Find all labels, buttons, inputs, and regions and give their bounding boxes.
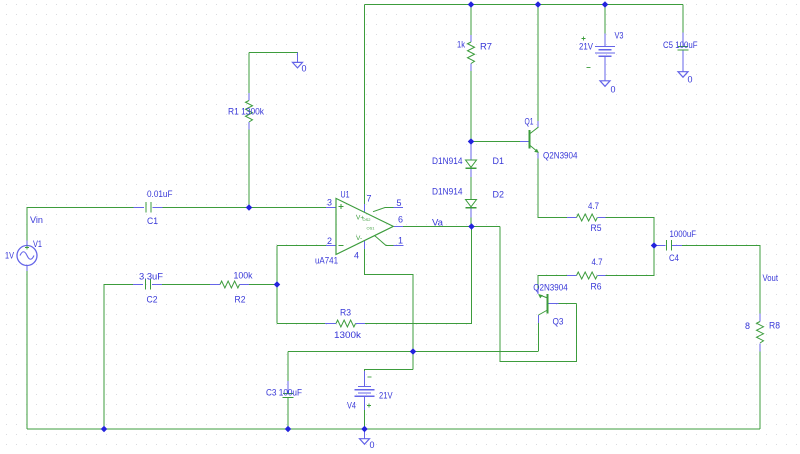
wire R3 right to Va	[365, 227, 472, 324]
wire Vin corner	[27, 208, 134, 241]
svg-text:0: 0	[688, 75, 693, 85]
capacitor C3 (100uF)	[283, 394, 294, 398]
junction node C1-R1-U1 input	[246, 204, 253, 211]
svg-text:OS2: OS2	[363, 217, 372, 222]
capacitor C2 (3.3uF)	[146, 279, 151, 290]
svg-text:R7: R7	[480, 42, 492, 52]
junction node top rail / V3	[602, 1, 609, 8]
pin stub op-amp pin 5	[394, 207, 404, 209]
pin stub V4 ground stem	[364, 429, 366, 439]
pin stub R6 right	[598, 275, 606, 277]
junction node inverting input	[274, 281, 281, 288]
wire V1 bottom	[26, 271, 28, 429]
svg-text:100k: 100k	[234, 271, 253, 281]
pin stub V1 top	[26, 241, 28, 246]
wire V3 top	[604, 5, 606, 34]
wire V4 top jog	[365, 370, 414, 372]
wire R1 bottom to input node	[248, 130, 250, 208]
pin stub R3 right	[356, 323, 366, 325]
pin stub R7 top	[470, 35, 472, 42]
wire V4 bottom	[364, 410, 366, 429]
junction node -V rail / pin4	[410, 348, 417, 355]
svg-text:4: 4	[354, 251, 359, 261]
wire C3 top	[287, 352, 289, 382]
svg-text:0: 0	[302, 64, 307, 74]
svg-text:0.01uF: 0.01uF	[147, 189, 173, 199]
pin stub R1 top	[248, 93, 250, 101]
pin stub Q3 base	[549, 303, 559, 305]
svg-text:D1: D1	[493, 156, 505, 166]
pin stub Q1 base	[520, 141, 529, 143]
wire R1 ground link	[249, 52, 298, 54]
svg-text:5: 5	[397, 198, 402, 208]
svg-text:R3: R3	[340, 308, 351, 318]
svg-text:1: 1	[398, 236, 403, 246]
svg-text:R2: R2	[235, 295, 246, 305]
junction node top rail / R7	[468, 1, 475, 8]
pin stub op-amp pin 7	[364, 204, 366, 212]
svg-text:R1 1300k: R1 1300k	[228, 107, 264, 117]
pin stub C2 left	[133, 284, 143, 286]
wire -V rail	[288, 351, 538, 353]
junction node Va	[468, 223, 475, 230]
V3 minus mark	[587, 67, 591, 69]
svg-text:R6: R6	[591, 282, 602, 292]
pin stub V4 bottom	[364, 397, 366, 410]
pin stub Q1 emitter	[537, 153, 539, 159]
pin stub R7 bottom	[470, 64, 472, 72]
svg-text:8: 8	[745, 321, 750, 331]
svg-text:Va: Va	[432, 218, 443, 228]
svg-text:0: 0	[370, 440, 375, 449]
svg-text:Q2N3904: Q2N3904	[533, 283, 568, 293]
wire Q1 collector up	[537, 5, 539, 122]
pin stub C4 right	[672, 245, 682, 247]
wire C5 top	[682, 5, 684, 33]
resistor R8 (8)	[757, 322, 764, 344]
resistor R6 (4.7)	[577, 272, 598, 279]
pin stub C2 right	[152, 284, 162, 286]
wire Q3 collector down to -V rail	[538, 323, 540, 352]
pin stub V4 top	[364, 371, 366, 386]
junction node C4 / R5 / R6	[651, 242, 658, 249]
pin stub V1 bottom	[26, 266, 28, 272]
pin stub C5 bottom	[682, 51, 684, 72]
svg-text:Q2N3904: Q2N3904	[543, 151, 578, 161]
pin stub C5 top	[682, 33, 684, 47]
junction node top rail / Q1 collector	[535, 1, 542, 8]
svg-text:Q3: Q3	[553, 317, 564, 327]
pin stub R2 right	[240, 284, 250, 286]
pin stub D1 cathode	[470, 169, 472, 177]
wire C4 left	[654, 245, 656, 247]
ground below V3	[600, 81, 610, 87]
svg-text:21V: 21V	[579, 42, 593, 52]
svg-text:C1: C1	[147, 216, 158, 226]
pin stub R8 bottom	[759, 344, 761, 352]
wire C4 to Vout	[682, 246, 760, 314]
junction node ground rail / C2	[101, 426, 108, 433]
diode D1 (D1N914)	[466, 160, 477, 168]
svg-text:R8: R8	[769, 321, 780, 331]
svg-text:C3 100uF: C3 100uF	[266, 388, 302, 398]
pin stub C1 right	[153, 207, 163, 209]
svg-text:1000uF: 1000uF	[670, 229, 697, 239]
wire Q1 emitter down to R5	[538, 159, 567, 218]
svg-text:21V: 21V	[379, 391, 393, 401]
ground below V4	[360, 439, 370, 445]
wire R7 top	[470, 5, 472, 36]
diode D2 (D1N914)	[466, 200, 477, 208]
pin stub C4 left	[656, 245, 666, 247]
svg-text:1300k: 1300k	[334, 330, 362, 340]
wire C1 to op-amp pin 3	[163, 207, 327, 209]
svg-text:6: 6	[398, 215, 403, 225]
svg-text:D1N914: D1N914	[432, 156, 463, 166]
transistor Q3 (Q2N3904 NPN, mirrored)	[538, 294, 547, 315]
pin stub Q1 collector	[537, 121, 539, 127]
pin stub R2 left	[210, 284, 220, 286]
op-amp U1 (uA741) body	[336, 198, 394, 254]
pin stub op-amp pin 3	[326, 207, 336, 209]
pin stub C1 left	[134, 207, 145, 209]
wire op-amp pin 4 jog	[365, 249, 414, 370]
wire D2 to Va node	[470, 218, 472, 227]
pin stub C3 top	[287, 381, 289, 393]
capacitor C4 (1000uF)	[667, 240, 672, 251]
svg-text:3.3uF: 3.3uF	[139, 272, 164, 282]
svg-text:D1N914: D1N914	[432, 187, 463, 197]
svg-text:Vin: Vin	[30, 215, 43, 225]
source V4 (21V battery)	[355, 387, 375, 397]
svg-text:C4: C4	[669, 253, 679, 263]
pin stub V3 bottom	[604, 57, 606, 81]
wire C2 to R2	[162, 284, 210, 286]
svg-text:3: 3	[327, 198, 332, 208]
wire to op-amp pin 2	[277, 245, 326, 247]
wire inverting node vertical	[276, 246, 278, 324]
wire Va output	[403, 226, 500, 228]
svg-text:V1: V1	[33, 239, 42, 249]
junction node Q1 base / R7 / D1	[468, 138, 475, 145]
wire Q3 base	[559, 303, 577, 305]
source V1 (1V sine)	[17, 246, 37, 266]
svg-text:4.7: 4.7	[588, 201, 599, 211]
svg-text:7: 7	[367, 194, 372, 204]
wire Q1 base	[471, 141, 520, 143]
V3 plus mark	[582, 37, 586, 41]
pin stub op-amp pin 6	[394, 226, 403, 228]
resistor R2 (100k)	[220, 281, 240, 288]
svg-text:R5: R5	[591, 223, 602, 233]
resistor R7 (1k)	[468, 42, 475, 64]
svg-text:Q1: Q1	[525, 117, 534, 127]
resistor R5 (4.7)	[577, 214, 598, 221]
wire R7 bottom to Q1 base node	[470, 71, 472, 142]
svg-text:OS1: OS1	[367, 226, 376, 231]
V4 plus mark	[367, 404, 371, 408]
junction node ground rail / C3	[285, 426, 292, 433]
svg-text:Vout: Vout	[763, 273, 779, 283]
svg-text:V4: V4	[347, 401, 356, 411]
wire bottom ground rail	[27, 428, 760, 430]
wire D1-D2 link	[470, 177, 472, 200]
pin stub R8 top	[759, 314, 761, 322]
svg-text:2: 2	[327, 236, 332, 246]
svg-text:1V: 1V	[5, 251, 14, 261]
pin stub op-amp pin 1	[394, 245, 404, 247]
wire R5 right	[606, 218, 655, 246]
resistor R1 (1300k)	[246, 101, 253, 123]
wire C2 left drop	[104, 285, 133, 430]
svg-text:uA741: uA741	[315, 256, 338, 266]
wire V+ feed down to op-amp pin 7	[364, 5, 366, 205]
ground near R1 stem	[297, 53, 299, 63]
transistor Q1 (Q2N3904 NPN)	[530, 127, 539, 153]
pin stub D1 anode	[470, 142, 472, 160]
pin stub op-amp pin 4	[364, 241, 366, 249]
svg-text:V-: V-	[356, 235, 362, 242]
svg-text:U1: U1	[341, 190, 350, 200]
svg-text:D2: D2	[493, 190, 505, 200]
V4 minus mark	[368, 376, 372, 378]
capacitor C1 (0.01uF)	[146, 202, 151, 213]
pin stub R5 right	[598, 217, 606, 219]
svg-text:V3: V3	[615, 31, 624, 41]
wire R6 right	[606, 246, 655, 276]
ground below C5	[678, 72, 688, 78]
svg-text:C5 100uF: C5 100uF	[663, 40, 698, 50]
svg-text:4.7: 4.7	[592, 257, 603, 267]
resistor R3 (1300k)	[336, 320, 356, 327]
pin stub R5 left	[567, 217, 577, 219]
wire R8 bottom	[759, 352, 761, 430]
source V3 (21V battery)	[595, 47, 615, 57]
pin stub R6 left	[567, 275, 577, 277]
pin stub R1 bottom	[248, 122, 250, 130]
wire Q3 emitter up to R6	[538, 276, 567, 289]
pin stub Q3 emitter	[537, 288, 539, 294]
wire R2 to inverting node	[249, 284, 277, 286]
pin stub R3 left	[325, 323, 336, 325]
wire R3 left	[277, 323, 325, 325]
junction node ground rail / V4	[361, 426, 368, 433]
pin stub Q3 collector	[538, 315, 540, 323]
wire Va to Q3 base return	[500, 227, 577, 362]
svg-text:1k: 1k	[457, 40, 465, 50]
pin stub D2 cathode	[470, 209, 472, 218]
ground near R1	[293, 62, 303, 68]
pin stub V3 top	[604, 34, 606, 47]
svg-text:0: 0	[611, 85, 616, 95]
capacitor C5 (100uF)	[678, 47, 689, 51]
svg-text:C2: C2	[147, 295, 158, 305]
wire C3 bottom	[287, 398, 289, 429]
pin stub op-amp pin 2	[326, 245, 336, 247]
wire top +V rail	[365, 4, 684, 6]
wire R1 top	[248, 53, 250, 94]
